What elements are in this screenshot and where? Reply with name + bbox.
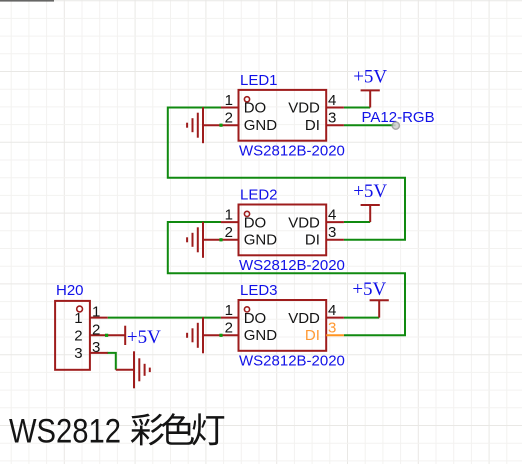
wire: LED2 VDD to +5V	[344, 221, 370, 223]
pin 3 DI (right bottom)	[305, 320, 344, 344]
svg-text:+5V: +5V	[127, 327, 161, 348]
svg-text:LED2: LED2	[240, 186, 278, 203]
svg-text:H20: H20	[56, 282, 84, 299]
svg-text:2: 2	[92, 321, 100, 338]
title glyph se	[162, 413, 194, 445]
svg-text:+5V: +5V	[353, 181, 387, 202]
pin 1 DO (left top)	[221, 92, 266, 117]
svg-text:DI: DI	[305, 117, 320, 134]
LED LED1 WS2812B-2020	[239, 90, 327, 141]
svg-text:2: 2	[225, 320, 233, 337]
svg-text:1: 1	[92, 304, 100, 321]
junction dot at H20 pin2	[105, 334, 108, 337]
svg-text:3: 3	[328, 224, 336, 241]
power +5V at LED3 VDD	[352, 279, 388, 318]
H20 pin 1	[74, 304, 107, 327]
pin 4 VDD (right top)	[288, 92, 344, 117]
svg-text:WS2812B-2020: WS2812B-2020	[239, 257, 345, 274]
svg-text:4: 4	[328, 92, 336, 109]
svg-text:GND: GND	[244, 232, 278, 249]
pin 2 GND (left bottom)	[203, 224, 277, 248]
ground symbol at LED2 pin 2	[187, 222, 203, 258]
svg-text:GND: GND	[244, 327, 278, 344]
ground symbol at LED1 pin 2	[187, 107, 203, 143]
title glyph cai	[131, 414, 164, 446]
H20 pin 3	[74, 339, 107, 362]
wire: LED1 DO -> LED2 DI	[168, 108, 405, 240]
power +5V at H20 pin2 (rotated)	[108, 326, 161, 348]
svg-text:3: 3	[74, 345, 82, 362]
svg-text:DO: DO	[244, 310, 267, 327]
svg-text:DI: DI	[305, 327, 320, 344]
svg-text:1: 1	[225, 302, 233, 319]
pin 1 DO (left top)	[221, 302, 266, 327]
pin 4 VDD (right top)	[288, 302, 344, 327]
svg-text:2: 2	[225, 224, 233, 241]
wire: H20 pin1 -> LED3 DO	[108, 317, 221, 319]
pin 3 DI (right bottom)	[305, 110, 344, 134]
svg-text:DO: DO	[244, 100, 267, 117]
svg-text:VDD: VDD	[288, 100, 320, 117]
svg-text:+5V: +5V	[353, 66, 387, 87]
svg-text:1: 1	[225, 207, 233, 224]
ground symbol at H20 pin3	[116, 351, 150, 388]
title glyph deng	[192, 413, 224, 445]
svg-text:3: 3	[92, 339, 100, 356]
svg-text:3: 3	[328, 110, 336, 127]
ground symbol at LED3 pin 2	[187, 317, 203, 353]
wire: LED3 VDD to +5V	[344, 317, 379, 319]
power +5V at LED2 VDD	[353, 181, 387, 222]
svg-text:2: 2	[74, 328, 82, 345]
svg-text:LED3: LED3	[240, 282, 278, 299]
pin 2 GND (left bottom)	[203, 320, 277, 344]
svg-text:VDD: VDD	[288, 214, 320, 231]
svg-text:2: 2	[225, 110, 233, 127]
svg-text:1: 1	[225, 92, 233, 109]
pin 4 VDD (right top)	[288, 207, 344, 232]
pin 2 GND (left bottom)	[203, 110, 277, 134]
LED LED3 WS2812B-2020	[239, 300, 327, 351]
svg-text:WS2812: WS2812	[9, 413, 121, 451]
wire: LED1 DI to net PA12-RGB	[344, 124, 396, 126]
power +5V at LED1 VDD	[353, 66, 387, 107]
svg-text:DO: DO	[244, 214, 267, 231]
pin 3 DI (right bottom)	[305, 224, 344, 248]
wire: LED2 DO -> LED3 DI	[168, 222, 405, 335]
svg-text:1: 1	[74, 310, 82, 327]
junction dot at LED1 pin 2	[219, 124, 222, 127]
svg-text:WS2812B-2020: WS2812B-2020	[239, 143, 345, 160]
screen edge artifact line	[0, 0, 54, 2]
svg-text:LED1: LED1	[240, 72, 278, 89]
header H20	[55, 301, 90, 370]
svg-text:GND: GND	[244, 117, 278, 134]
LED LED2 WS2812B-2020	[239, 205, 327, 256]
svg-text:3: 3	[328, 320, 336, 337]
svg-text:WS2812B-2020: WS2812B-2020	[239, 353, 345, 370]
H20 pin 2	[74, 321, 107, 344]
wire: LED1 VDD to +5V	[344, 107, 370, 109]
svg-text:VDD: VDD	[288, 310, 320, 327]
dangling wire end dot	[392, 122, 399, 129]
svg-text:4: 4	[328, 207, 336, 224]
svg-text:+5V: +5V	[352, 279, 386, 300]
junction dot at LED3 pin 2	[219, 334, 222, 337]
svg-text:4: 4	[328, 302, 336, 319]
junction dot at LED2 pin 2	[219, 238, 222, 241]
pin 1 DO (left top)	[221, 207, 266, 232]
svg-text:DI: DI	[305, 232, 320, 249]
wire: H20 pin3 to ground	[107, 353, 116, 370]
